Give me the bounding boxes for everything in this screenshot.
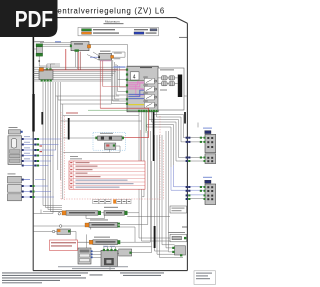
pump pin right [122, 137, 124, 140]
legend table row lines [69, 165, 145, 186]
actuator B label [90, 219, 108, 220]
red dashed border bottom [61, 198, 160, 200]
footer date text [90, 274, 103, 275]
thick harness segment left-center [68, 118, 70, 140]
K2 fan right elbows band2 [56, 82, 120, 96]
splice circle row A [58, 213, 60, 215]
ZV pump bar [98, 136, 123, 140]
red region label [66, 113, 78, 114]
bottom motor D2 [101, 250, 118, 266]
door module box A85 [158, 68, 184, 110]
relay K2 pins bottom [41, 79, 43, 81]
D2 pin row [103, 249, 117, 251]
X2 label [8, 173, 16, 174]
left connector block X1 body [8, 136, 22, 165]
footer right info box [194, 271, 216, 285]
unit N54 pins left [126, 69, 128, 105]
K2 fan down into left bus [43, 82, 62, 206]
legend swatch green [82, 29, 92, 31]
thick harness segment left lower [32, 94, 34, 132]
module SZ label strip [100, 51, 111, 52]
actuator bar C (rear door) [93, 240, 118, 245]
thick harness segment stub [41, 112, 43, 125]
PDF badge [0, 0, 58, 37]
D2 motor icon [104, 258, 114, 265]
unit N54 relay contacts [146, 79, 157, 106]
wire blue SZ feed [90, 56, 99, 58]
actuator C orange cap [89, 240, 93, 244]
unit N54 blue harness [128, 90, 144, 98]
frame top edge with chamfered corner [33, 18, 187, 24]
caption under diagram [58, 265, 128, 268]
thick harness segment below unit [153, 112, 155, 161]
right cluster2 stubs [174, 165, 204, 187]
module inner label [160, 90, 167, 91]
G_REDS [40, 49, 164, 269]
M2 inner contacts [207, 186, 213, 200]
green wire under red feed [88, 110, 146, 133]
legend table text greek [76, 162, 101, 177]
row D pin drops [104, 246, 152, 248]
legend swatch gray [150, 29, 157, 31]
small switch B2 [57, 229, 71, 234]
M2 pins [204, 186, 206, 200]
right door lock M2 body [205, 184, 216, 205]
right door lock M1 label [203, 128, 212, 129]
pump sublabels [70, 155, 78, 158]
red dashed border right outer [163, 140, 165, 200]
X1 header pin [21, 131, 23, 133]
frame bottom edge [33, 270, 187, 272]
actuator A green cap [98, 211, 101, 215]
D2 labels blue [103, 245, 108, 248]
thick harness segment on left frame edge [32, 37, 34, 94]
trunk switch cluster [175, 246, 186, 255]
red wire drop from title area [65, 49, 67, 70]
label blue 30 [55, 41, 61, 42]
legend swatch blue [134, 32, 144, 34]
trunk cluster wires [171, 248, 172, 252]
red wire pair under A34 [78, 52, 80, 70]
pump pin left [95, 137, 97, 140]
M1 pins [204, 137, 206, 162]
right door lock M1 body lower [205, 154, 216, 164]
unit N54 pins bottom [138, 110, 158, 112]
red wire feed to pump [100, 108, 148, 137]
row C connections [63, 241, 93, 243]
frame tick bottom-right [182, 226, 187, 228]
left cluster2 stub joins [35, 179, 46, 181]
X2 stub connectors [22, 179, 35, 198]
module SZ body [99, 53, 112, 60]
B2 orange bit [57, 229, 60, 232]
relay K2 orange connector [39, 68, 43, 71]
D1 pins [91, 250, 93, 252]
trunk lock pin [184, 237, 186, 239]
unit N54 green wire [128, 80, 144, 82]
relay K2 pins top [46, 68, 48, 70]
G_FRAME [33, 18, 187, 271]
unit N54 relay1 [144, 78, 154, 108]
trunk lock label [168, 232, 185, 233]
module A34 body [71, 42, 89, 51]
note box red bottom-left [50, 240, 78, 250]
X1 slot [11, 139, 16, 148]
terminal strip labels [93, 199, 131, 204]
footer left text block [2, 272, 88, 283]
connector symbol pair 2 [162, 82, 175, 86]
actuator B orange cap [85, 223, 89, 227]
connector wires inside module [158, 78, 178, 84]
row B2 connections [34, 231, 53, 233]
right link vertical [197, 123, 199, 128]
X1 tiny labels [24, 135, 30, 138]
unit N54 pink harness [128, 81, 144, 95]
X1 stub connectors [22, 138, 42, 167]
blue dashed box around pump [93, 132, 126, 150]
splice dot under K1 [38, 60, 40, 62]
right door lock M1 connector blob [205, 131, 211, 134]
central locking unit N54 body [127, 66, 158, 112]
B2 green pin [68, 230, 70, 232]
terminal strip greek [94, 201, 131, 202]
unit N54 relay labels [143, 77, 148, 102]
actuator A label [69, 212, 95, 213]
bottom box D3 [119, 249, 132, 256]
wire K1 drop with splice [39, 56, 60, 66]
actuator bar A2 [104, 211, 125, 216]
top wire band from K1 to A34 [40, 42, 71, 44]
X1 rows [10, 150, 21, 153]
row B connections [34, 225, 60, 227]
vertical elbow bundle feeding unit [110, 58, 112, 104]
pump label [100, 133, 113, 134]
X1 stub wires blue [22, 139, 35, 166]
red dashed border left B [64, 116, 66, 200]
G_WIRES [34, 43, 204, 271]
right door lock M1 body upper [205, 134, 216, 152]
unit N54 top label [140, 67, 152, 68]
X2 mid [8, 185, 22, 193]
right door lock M2 connector blob [205, 180, 211, 183]
G_COMPONENTS [8, 41, 216, 266]
unit N54 yellow wire [128, 104, 144, 106]
red wire band1 [40, 69, 126, 71]
splice circle row B [59, 225, 62, 228]
module A34 pin left [70, 45, 72, 48]
actuator bar A (front left door) [66, 211, 98, 216]
bottom-left stub [34, 213, 49, 215]
actuator A2 label [104, 207, 118, 208]
legend box [78, 27, 159, 35]
legend table red border [69, 161, 145, 189]
white module box links [150, 99, 158, 101]
module SZ pin left [98, 56, 100, 58]
actuator C green cap [118, 240, 121, 244]
legend text greek [93, 29, 157, 33]
terminal strip orange cell [113, 199, 116, 203]
M2 stub connectors [186, 186, 202, 200]
unit N54 fuse box 4 [130, 72, 139, 80]
splice circle row B2 [52, 230, 55, 233]
svg-text:Motorraum: Motorraum [105, 19, 120, 23]
G_HEADER [52, 7, 165, 36]
legend table number column [73, 161, 75, 189]
M1 stub connectors [186, 137, 202, 162]
actuator A2 green cap [125, 211, 128, 215]
G_FOOTER [2, 271, 216, 285]
pump wires [63, 137, 95, 139]
bottom connector D1 [78, 248, 91, 264]
left cluster1 stub joins [40, 138, 61, 140]
D3 green pin [129, 252, 131, 254]
relay K2 body [39, 70, 53, 80]
trunk lock body [170, 234, 187, 242]
actuator A orange cap [62, 211, 66, 215]
right door lock M2 label [203, 177, 212, 178]
unit bottom mid drops to rows [120, 131, 148, 225]
unit N54 blue label [114, 66, 126, 67]
thick harness segment bottom-center [154, 226, 156, 248]
black bar connector [178, 75, 182, 98]
unit bottom drop bundle [139, 112, 170, 238]
trunk lock inner [172, 236, 182, 239]
svg-text:PDF: PDF [15, 8, 53, 33]
M1 inner contacts [207, 137, 213, 162]
footer center text block [120, 272, 164, 276]
frame right edge [186, 23, 188, 270]
pump lower pin [113, 144, 115, 146]
red dashed border left A [60, 112, 62, 200]
svg-text:Zentralverriegelung (ZV) L6: Zentralverriegelung (ZV) L6 [52, 7, 165, 16]
actuator C label [94, 237, 110, 238]
note box text greek [51, 242, 76, 243]
frame tick top-right [179, 36, 187, 38]
relay K1 body [36, 47, 42, 53]
svg-text:4: 4 [133, 74, 136, 80]
connector symbol pair 1 [162, 76, 175, 80]
module A34 label [74, 43, 83, 44]
X1 header label [9, 127, 18, 128]
X2 stub wires blue [22, 180, 31, 197]
module SZ orange connector [111, 55, 114, 58]
pump connector blobs [101, 137, 104, 140]
relay K2 label [34, 73, 39, 74]
wire diagonal to SZ module [87, 55, 99, 61]
left connector block X2 top [8, 176, 22, 183]
frame left edge [32, 18, 34, 271]
heck label box [170, 206, 187, 213]
door module label [160, 69, 174, 70]
module A34 pin bottom [75, 49, 79, 51]
thick harness segment right of unit [184, 112, 186, 124]
module A34 orange connector [87, 45, 90, 48]
pump lower detail red [106, 144, 109, 146]
actuator bar B (front right door) [89, 222, 118, 227]
pump lower box [105, 143, 116, 149]
relay K1 label [34, 41, 44, 42]
actuator B pins [118, 223, 120, 225]
row D connections [86, 234, 88, 248]
left bus long verticals [62, 104, 64, 199]
unit left pin feeds [119, 69, 126, 71]
right-center long verticals to bottom elbows [155, 135, 169, 251]
module SZ side labels [114, 53, 122, 54]
module SZ pink underline [100, 60, 111, 63]
X2 bottom [8, 194, 22, 201]
legend table numbers [70, 162, 72, 188]
bottom right comp feeds [186, 237, 189, 239]
left connector block X1 header [9, 130, 21, 134]
wire SZ loop right [112, 52, 125, 57]
red wire drop left of unit [140, 130, 142, 178]
relay K1 pin bottom [36, 53, 43, 56]
band1 horizontal bus [34, 66, 120, 68]
red dashed border right [159, 116, 161, 200]
legend swatch orange [82, 32, 92, 34]
relay K1 pin top [36, 44, 43, 47]
row A connections [43, 211, 62, 213]
thick harness segment bottom-left of unit drop [90, 223, 92, 230]
wire A34 to unit top [89, 44, 127, 66]
trunk switch pins [172, 247, 174, 249]
